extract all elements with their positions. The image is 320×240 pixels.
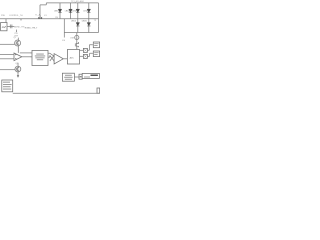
wire LED branch 5 lower xyxy=(77,19,79,33)
capacitor C1 xyxy=(10,25,12,29)
box DAC1 xyxy=(93,42,99,48)
svg-text:LED2: LED2 xyxy=(65,10,71,12)
svg-text:LED5: LED5 xyxy=(71,20,77,22)
wire B3 out xyxy=(74,76,79,78)
diode LED4 xyxy=(87,9,90,12)
wire rail to Q3 xyxy=(76,33,78,36)
block P1 xyxy=(79,74,82,79)
connector J1 xyxy=(1,23,7,31)
diode LED6 xyxy=(87,23,90,26)
box thermal controller B1 xyxy=(32,50,48,65)
transistor Q4 xyxy=(75,40,78,48)
wire J1 drop xyxy=(5,19,7,23)
wire TP tick xyxy=(75,1,77,4)
node junction TL xyxy=(38,17,42,19)
svg-text:LED4: LED4 xyxy=(83,10,89,12)
box firmware B3 xyxy=(62,73,74,81)
svg-text:LED3: LED3 xyxy=(72,10,78,12)
svg-text:ADC: ADC xyxy=(70,57,75,60)
wire LS stub xyxy=(63,19,65,38)
svg-text:PSU: PSU xyxy=(1,15,6,17)
wire jog xyxy=(40,3,46,5)
wire U1 in- xyxy=(0,58,14,60)
svg-text:LSR: LSR xyxy=(70,37,74,39)
wire F1 to DAC1 xyxy=(87,45,92,51)
block TP2 xyxy=(97,88,100,93)
wire U1 out xyxy=(22,56,32,58)
wire U2 out xyxy=(63,58,67,60)
wire bottom bus xyxy=(13,92,100,94)
svg-text:RGND_THI_T: RGND_THI_T xyxy=(25,27,38,29)
op-amp U2 xyxy=(54,54,63,64)
node crossing wires xyxy=(48,56,50,58)
node arrow xyxy=(16,30,18,32)
op-amp U1 xyxy=(14,53,22,61)
transistor Q1 xyxy=(0,38,21,53)
wire U1 in+ xyxy=(0,54,14,56)
wire LED branch 2 xyxy=(70,3,72,19)
svg-text:LED6: LED6 xyxy=(82,20,88,22)
wire anode vertical xyxy=(39,5,41,19)
wire right edge xyxy=(98,3,100,33)
wire LED branch 6 lower xyxy=(88,19,90,33)
diode LED1 xyxy=(58,9,61,12)
wire J1 out xyxy=(7,25,14,27)
box ADC B2 xyxy=(67,50,79,65)
wire Q2 arrow down xyxy=(17,75,19,78)
diode LED5 xyxy=(76,23,79,26)
block F1 xyxy=(83,48,87,52)
wire LED branch 3 xyxy=(77,3,79,19)
wire B1 out A xyxy=(48,53,54,56)
wire B2 to F2 xyxy=(80,55,84,57)
wire main rail xyxy=(0,18,99,20)
block F2 xyxy=(83,54,87,58)
box status B4 xyxy=(82,73,99,78)
wire LED branch 1 xyxy=(59,3,61,19)
wire Q1 to box xyxy=(20,52,32,54)
wire F2 to DAC2 xyxy=(87,53,92,56)
wire cathode rail xyxy=(64,32,98,34)
wire ladder top rail xyxy=(46,2,98,4)
wire LED branch 4 xyxy=(88,3,90,19)
box note N1 xyxy=(2,80,13,92)
svg-text:AGND_THI: AGND_THI xyxy=(14,25,25,28)
svg-text:CONTROL_TH: CONTROL_TH xyxy=(9,15,23,17)
wire Q4 down xyxy=(76,47,78,49)
svg-text:LED1: LED1 xyxy=(54,10,60,12)
transistor Q2 xyxy=(0,63,21,76)
diode LED3 xyxy=(76,9,79,12)
diode LED2 xyxy=(69,9,72,12)
current source Q3 xyxy=(75,35,79,39)
node tick x21 xyxy=(20,19,22,20)
box DAC2 xyxy=(93,51,99,57)
